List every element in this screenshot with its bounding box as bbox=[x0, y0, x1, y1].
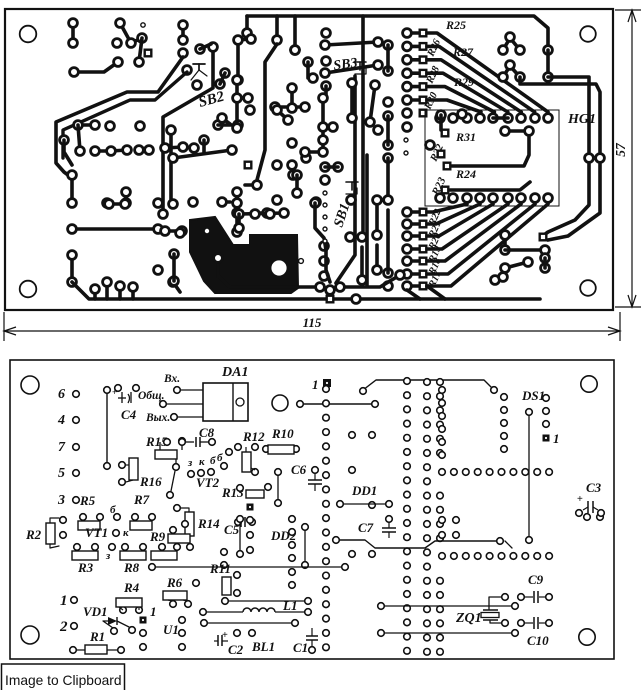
pads bbox=[273, 189, 320, 208]
pads bbox=[326, 286, 335, 303]
connector pin 4 bbox=[57, 413, 79, 428]
resistor R6 bbox=[163, 591, 191, 607]
pads bbox=[263, 209, 272, 218]
svg-text:Общ.: Общ. bbox=[138, 390, 165, 402]
svg-text:57: 57 bbox=[613, 142, 628, 157]
svg-text:R16: R16 bbox=[139, 474, 162, 489]
svg-text:BL1: BL1 bbox=[251, 639, 275, 654]
svg-text:VT2: VT2 bbox=[196, 475, 220, 490]
capacitor C2 bbox=[214, 630, 255, 646]
pads bbox=[237, 516, 244, 558]
svg-text:R5: R5 bbox=[79, 493, 96, 508]
connector pin 1 bbox=[60, 593, 77, 609]
pads bbox=[129, 283, 138, 292]
wire bbox=[407, 286, 445, 299]
wire bbox=[430, 632, 515, 634]
pads bbox=[501, 127, 534, 136]
svg-text:R6: R6 bbox=[166, 575, 183, 590]
pads bbox=[91, 285, 100, 294]
pads bbox=[320, 242, 329, 281]
via dots bbox=[323, 191, 327, 243]
pads bbox=[221, 449, 233, 470]
mounting hole bottom-left bbox=[20, 281, 37, 298]
pad triangle 2 bbox=[499, 61, 525, 82]
pads bbox=[322, 29, 331, 91]
wire bbox=[222, 118, 230, 124]
pad 1 black square bbox=[140, 604, 157, 624]
svg-text:U1: U1 bbox=[163, 622, 179, 637]
svg-text:R25: R25 bbox=[445, 18, 466, 32]
pads bbox=[245, 161, 302, 180]
pads bbox=[384, 196, 393, 291]
pads bbox=[302, 524, 309, 569]
wire bbox=[324, 86, 328, 98]
pads bbox=[222, 598, 312, 605]
svg-text:R14: R14 bbox=[197, 516, 220, 531]
wire bbox=[293, 16, 297, 50]
pads bbox=[348, 79, 357, 123]
wire bbox=[505, 248, 545, 252]
wire bbox=[208, 622, 291, 624]
resistor R7 bbox=[130, 514, 155, 530]
pads bbox=[235, 209, 289, 219]
wire bbox=[78, 123, 95, 127]
capacitor C4 bbox=[112, 385, 139, 403]
svg-text:к: к bbox=[123, 527, 129, 539]
pads bbox=[403, 109, 427, 132]
pads bbox=[289, 516, 296, 589]
connector pin 7 bbox=[58, 440, 79, 455]
svg-text:R4: R4 bbox=[123, 580, 140, 595]
wire bbox=[156, 566, 345, 568]
pads bbox=[68, 251, 77, 287]
wire bbox=[109, 202, 125, 206]
wire bbox=[173, 150, 232, 158]
wire bbox=[386, 210, 390, 273]
pads bbox=[113, 19, 147, 48]
wire bbox=[124, 192, 128, 203]
wire bbox=[365, 155, 369, 285]
wire bbox=[290, 88, 294, 104]
connector pin 6 bbox=[58, 387, 79, 402]
DA1 pin wire bbox=[171, 414, 203, 421]
wire bbox=[375, 245, 379, 270]
svg-text:1: 1 bbox=[553, 431, 560, 446]
pads bbox=[214, 254, 325, 292]
wire bbox=[70, 175, 74, 203]
pads bbox=[105, 200, 130, 209]
svg-text:2: 2 bbox=[59, 619, 68, 635]
bottom board outline bbox=[10, 360, 614, 659]
svg-text:R12: R12 bbox=[242, 429, 265, 444]
svg-text:R1: R1 bbox=[89, 629, 105, 644]
svg-text:R29: R29 bbox=[453, 75, 474, 89]
labels z k b bbox=[187, 455, 216, 469]
wire bbox=[439, 115, 443, 130]
wire bbox=[74, 62, 118, 72]
wire bbox=[350, 83, 354, 118]
svg-text:C2: C2 bbox=[228, 642, 244, 657]
svg-text:R27: R27 bbox=[452, 45, 474, 59]
inductor L1 bbox=[200, 608, 312, 615]
pads bbox=[170, 229, 185, 286]
pads bbox=[526, 409, 533, 544]
pads bbox=[109, 544, 116, 551]
wire bbox=[360, 247, 364, 280]
resistor R10 bbox=[263, 445, 300, 454]
wire bbox=[238, 39, 251, 40]
switch SB1 symbol bbox=[346, 182, 358, 194]
pads bbox=[60, 136, 69, 145]
wire bbox=[172, 254, 176, 281]
wire bbox=[237, 214, 241, 228]
wire bbox=[72, 227, 158, 231]
crystal ZQ1 bbox=[481, 594, 508, 627]
svg-text:1: 1 bbox=[312, 377, 319, 392]
svg-text:115: 115 bbox=[303, 315, 322, 330]
svg-text:DS1: DS1 bbox=[521, 388, 545, 403]
wire bbox=[295, 175, 299, 193]
wire bbox=[275, 105, 305, 109]
wire bbox=[340, 275, 400, 287]
wire bbox=[63, 72, 187, 158]
pads bbox=[501, 258, 533, 273]
wire bbox=[95, 150, 127, 151]
resistor R3 bbox=[72, 544, 98, 560]
wire bbox=[56, 57, 183, 178]
wire bbox=[305, 150, 318, 154]
wire bbox=[169, 130, 173, 199]
pads bbox=[76, 146, 132, 156]
wire bbox=[452, 137, 529, 166]
wire bbox=[336, 76, 355, 283]
svg-text:б: б bbox=[217, 452, 223, 464]
pads bbox=[122, 188, 131, 208]
pads bbox=[200, 136, 209, 145]
pads bbox=[404, 138, 444, 157]
wire bbox=[222, 200, 230, 204]
wire bbox=[528, 416, 530, 540]
wire bbox=[139, 148, 149, 152]
pads bbox=[114, 514, 121, 521]
svg-text:R10: R10 bbox=[271, 426, 294, 441]
svg-text:C1: C1 bbox=[293, 640, 308, 655]
capacitor C6 bbox=[308, 467, 329, 495]
wire bbox=[105, 282, 109, 299]
wire bbox=[139, 38, 142, 62]
resistor R12 bbox=[235, 444, 259, 476]
capacitor C5 bbox=[235, 517, 256, 527]
pads bbox=[275, 469, 282, 507]
svg-text:з: з bbox=[187, 457, 193, 469]
wire bbox=[361, 16, 365, 237]
svg-text:HG1: HG1 bbox=[567, 112, 596, 127]
pads bbox=[68, 171, 112, 208]
copper pour bbox=[190, 217, 298, 293]
hole bottom-panel bottom-right bbox=[579, 629, 595, 645]
wire fan to HG1 bbox=[427, 33, 548, 112]
IC pin column bbox=[424, 379, 431, 655]
top board outline bbox=[5, 9, 613, 310]
svg-text:C10: C10 bbox=[527, 633, 549, 648]
wire bbox=[326, 250, 330, 282]
IC pin column bbox=[437, 379, 444, 655]
pads bbox=[247, 517, 254, 554]
svg-text:C6: C6 bbox=[291, 462, 307, 477]
pads bbox=[273, 36, 282, 45]
hole bottom-panel top-left bbox=[21, 376, 39, 394]
svg-text:+: + bbox=[112, 387, 117, 397]
pads bbox=[253, 181, 262, 190]
pads bbox=[214, 121, 243, 130]
capacitor C8 bbox=[179, 437, 216, 447]
wire bbox=[235, 80, 239, 128]
svg-text:VT1: VT1 bbox=[85, 525, 108, 540]
pads bbox=[337, 501, 393, 508]
wire bbox=[495, 277, 503, 280]
wire bbox=[275, 16, 279, 40]
dimension line 115 bbox=[4, 327, 620, 335]
HG1 bottom pad row bbox=[436, 194, 553, 203]
wire bbox=[450, 182, 530, 190]
wire bbox=[200, 44, 211, 49]
svg-text:C4: C4 bbox=[121, 407, 137, 422]
capacitor C1 bbox=[306, 628, 318, 653]
pads bbox=[273, 106, 293, 125]
wire bbox=[71, 23, 75, 43]
wire bbox=[544, 164, 589, 235]
pads bbox=[501, 394, 508, 453]
wire bbox=[181, 25, 185, 40]
wire bbox=[505, 129, 529, 133]
wire bbox=[118, 286, 122, 299]
pads bbox=[596, 154, 605, 163]
wire bbox=[165, 147, 194, 148]
pads bbox=[243, 29, 553, 55]
pads bbox=[116, 282, 125, 291]
pads bbox=[437, 110, 467, 120]
pads bbox=[373, 196, 382, 240]
pad triangle 1 bbox=[499, 33, 525, 55]
capacitor C7 bbox=[382, 516, 396, 538]
pad-square pairs right column top bbox=[403, 29, 427, 105]
svg-text:R3: R3 bbox=[77, 560, 94, 575]
IC DA1 body bbox=[203, 383, 248, 421]
pads bbox=[384, 41, 393, 163]
svg-text:Вх.: Вх. bbox=[163, 373, 180, 385]
svg-text:7: 7 bbox=[58, 440, 66, 455]
pads bbox=[193, 69, 230, 90]
mounting hole bottom-right bbox=[580, 280, 596, 296]
wire bbox=[257, 44, 277, 180]
svg-text:+: + bbox=[222, 630, 228, 641]
wire bbox=[321, 98, 325, 152]
svg-text:R24: R24 bbox=[455, 167, 476, 181]
pads bbox=[291, 46, 300, 55]
dimension extension lines bbox=[4, 10, 641, 341]
pads bbox=[321, 61, 383, 78]
pads bbox=[501, 231, 510, 255]
wire bbox=[548, 164, 600, 240]
pads bbox=[378, 603, 385, 637]
pad-square pairs right column bottom bbox=[403, 208, 427, 291]
label 1 pad bbox=[312, 377, 331, 392]
wire bbox=[546, 50, 550, 77]
svg-text:R11: R11 bbox=[209, 561, 231, 576]
pads bbox=[159, 43, 218, 219]
wire fan from HG1 bottom bbox=[427, 204, 548, 286]
wire bbox=[325, 165, 338, 169]
pad 1 black square bbox=[247, 504, 254, 511]
pads bbox=[540, 234, 547, 241]
pads bbox=[169, 146, 237, 163]
pads bbox=[442, 187, 449, 194]
wire bbox=[239, 519, 241, 554]
pads bbox=[247, 35, 256, 44]
svg-text:C8: C8 bbox=[199, 425, 215, 440]
wire bbox=[131, 287, 135, 299]
wire bbox=[277, 110, 288, 120]
svg-text:4: 4 bbox=[57, 413, 65, 428]
wire bbox=[173, 282, 180, 292]
svg-text:C9: C9 bbox=[528, 572, 544, 587]
pads bbox=[140, 617, 186, 651]
pads bbox=[167, 492, 174, 499]
svg-text:ZQ1: ZQ1 bbox=[455, 611, 482, 626]
wire bbox=[336, 540, 496, 548]
pads bbox=[349, 432, 376, 558]
pads bbox=[291, 46, 313, 67]
DA1 pin wire bbox=[160, 401, 203, 408]
diode VD1 bbox=[103, 617, 135, 634]
pads bbox=[234, 36, 243, 85]
resistor R8 bbox=[120, 544, 146, 560]
wire bbox=[430, 605, 511, 607]
svg-text:6: 6 bbox=[58, 387, 65, 402]
wire bbox=[236, 40, 240, 80]
wire bbox=[543, 258, 547, 268]
pads bbox=[167, 126, 176, 135]
svg-text:з: з bbox=[105, 550, 111, 562]
connector pin 3 bbox=[57, 493, 79, 508]
wire bbox=[363, 380, 494, 390]
wire bbox=[202, 140, 206, 152]
wire bbox=[239, 213, 284, 214]
pin row bbox=[439, 553, 553, 560]
pads bbox=[321, 38, 383, 50]
labels R17-R22 bbox=[426, 208, 444, 291]
pads bbox=[193, 580, 200, 587]
svg-text:R8: R8 bbox=[123, 560, 140, 575]
pads bbox=[352, 295, 361, 304]
switch SB2 symbol bbox=[191, 64, 207, 80]
pads bbox=[297, 401, 379, 408]
pads bbox=[196, 45, 205, 54]
wire bbox=[381, 606, 430, 633]
svg-text:1: 1 bbox=[150, 604, 157, 619]
resistor R9 bbox=[168, 521, 190, 543]
wire bbox=[520, 77, 600, 152]
pads bbox=[179, 21, 188, 58]
pads bbox=[543, 395, 550, 428]
pads bbox=[333, 537, 504, 545]
wire bbox=[245, 16, 249, 33]
pads bbox=[161, 143, 199, 153]
pads bbox=[439, 517, 446, 539]
wire bbox=[386, 116, 390, 145]
wire bbox=[325, 42, 378, 45]
svg-text:1: 1 bbox=[60, 593, 68, 609]
pads bbox=[235, 224, 244, 233]
dimension line 57 bbox=[628, 10, 636, 307]
resistor R15 bbox=[155, 438, 185, 471]
wire bbox=[171, 471, 175, 491]
wire bbox=[218, 258, 320, 287]
wire bbox=[386, 158, 390, 200]
capacitor C3 bbox=[576, 494, 605, 516]
resistor R16 bbox=[119, 458, 138, 485]
pads bbox=[444, 163, 451, 170]
resistor R14 bbox=[174, 505, 194, 544]
wire bbox=[235, 192, 239, 232]
wire bbox=[163, 47, 213, 214]
pads bbox=[346, 196, 356, 242]
svg-text:VD1: VD1 bbox=[83, 604, 108, 619]
pads bbox=[366, 81, 383, 135]
pads bbox=[439, 387, 446, 459]
wire bbox=[78, 125, 80, 151]
pads bbox=[161, 227, 187, 236]
pads bbox=[512, 603, 519, 610]
svg-text:б: б bbox=[210, 455, 216, 467]
pads bbox=[154, 266, 178, 287]
pads bbox=[426, 130, 449, 150]
mounting hole top-left bbox=[20, 26, 37, 43]
pads bbox=[288, 123, 338, 157]
wire bbox=[64, 140, 72, 165]
capacitor C10 bbox=[518, 617, 553, 629]
wire bbox=[229, 600, 304, 602]
Image to Clipboard button bbox=[2, 664, 125, 690]
wire bbox=[315, 203, 326, 250]
wire bbox=[325, 65, 378, 73]
mounting hole top-right bbox=[580, 26, 596, 42]
pads bbox=[187, 544, 194, 551]
pads bbox=[584, 514, 604, 521]
hole bottom-panel top-right bbox=[581, 376, 597, 392]
wire bbox=[245, 183, 257, 187]
pads bbox=[233, 188, 242, 237]
pads bbox=[218, 94, 255, 123]
svg-text:C7: C7 bbox=[358, 520, 374, 535]
hole bottom-panel bottom-left bbox=[21, 626, 39, 644]
pads bbox=[319, 94, 328, 157]
pads bbox=[360, 387, 498, 395]
pads bbox=[69, 19, 78, 48]
wire bbox=[277, 472, 279, 503]
svg-text:R2: R2 bbox=[25, 527, 42, 542]
pads bbox=[302, 154, 343, 207]
wire bbox=[503, 235, 507, 250]
pad 1 black square bbox=[543, 431, 560, 446]
resistor R2 bbox=[46, 517, 66, 548]
pads bbox=[103, 278, 112, 287]
pads bbox=[68, 198, 198, 234]
wire bbox=[375, 200, 379, 235]
pads bbox=[218, 198, 227, 207]
pad at pour right bbox=[299, 259, 304, 264]
wire bbox=[370, 85, 375, 122]
